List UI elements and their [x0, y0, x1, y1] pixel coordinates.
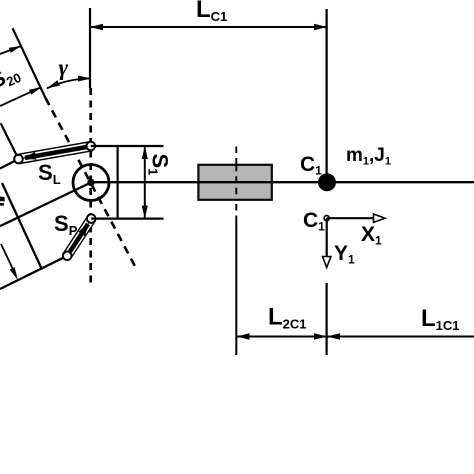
rotated axis line B (crank center to lower left)	[0, 183, 91, 227]
arrowhead gamma arc left	[47, 80, 60, 88]
arrowhead S_20 lower	[29, 87, 41, 95]
arrowhead L_2C1 right	[314, 333, 327, 339]
arrowhead L_C1 right	[314, 24, 327, 30]
bottom node pin	[87, 214, 96, 223]
arrowhead L_1C1 left	[327, 333, 340, 339]
gamma angle arc	[47, 79, 91, 89]
dimension line S_1	[144, 146, 146, 219]
dimension line D lower left	[1, 244, 16, 275]
arrowhead gamma arc right	[78, 76, 91, 82]
arrowhead S_20 upper	[9, 46, 21, 53]
dimension line S_20 lower	[0, 88, 40, 106]
damper block (gray rectangle)	[198, 165, 271, 200]
rotated line A2 (parallel steep line lower left)	[2, 183, 42, 270]
svg-text:L1C1: L1C1	[421, 305, 460, 333]
link rod S_P arrow shaft	[70, 224, 88, 252]
svg-text:SL: SL	[38, 160, 61, 187]
svg-text:Y1: Y1	[334, 242, 355, 267]
left node pin	[14, 155, 23, 164]
arrowhead L_2C1 left	[237, 333, 250, 339]
damper block extension line solid	[235, 220, 237, 355]
axis over block	[198, 181, 272, 183]
dimension line L_2C1 / L_1C1	[237, 336, 474, 338]
link rod S_L outline	[19, 142, 92, 164]
svg-text:L2C1: L2C1	[268, 304, 307, 332]
arrowhead S_1 top	[142, 146, 148, 159]
Y1 axis open arrowhead	[323, 257, 331, 268]
svg-text:C1: C1	[300, 153, 322, 178]
svg-text:C1: C1	[303, 209, 325, 234]
rocker node pin	[63, 252, 72, 261]
svg-text:S1: S1	[146, 154, 173, 176]
vertical line through C1 (x=327)	[325, 9, 327, 180]
main horizontal axis	[91, 181, 474, 183]
arrowhead S_P	[78, 223, 89, 237]
link rod S_P outline	[63, 216, 95, 258]
arrowhead L_C1 left	[90, 24, 103, 30]
Y1 axis line	[326, 218, 328, 257]
svg-text:m1,J1: m1,J1	[346, 145, 391, 168]
damper block center dashed line	[235, 147, 237, 221]
extension line below C1	[326, 283, 328, 355]
svg-text:LC1: LC1	[196, 0, 227, 24]
rocker arm line	[0, 256, 67, 289]
svg-text:SP: SP	[54, 211, 78, 238]
X1 axis line	[327, 217, 374, 219]
X1 axis open arrowhead	[374, 214, 386, 222]
top node pin	[87, 142, 96, 151]
svg-text:X1: X1	[361, 223, 382, 248]
dimension line L_C1	[90, 26, 327, 28]
piston top line	[91, 145, 164, 147]
crank circle	[73, 165, 109, 201]
svg-text:γ: γ	[59, 55, 69, 80]
arrowhead D	[10, 267, 18, 280]
mass point C1 dot	[318, 173, 336, 191]
extension line left (vertical at x=90, top)	[89, 8, 91, 88]
coordinate frame origin	[324, 216, 329, 221]
svg-text:S20: S20	[0, 59, 23, 96]
crank rotated axis solid segment (S_20 extension line)	[13, 28, 46, 98]
cut letter fragment at left edge	[0, 197, 5, 206]
damper center dashes over block	[235, 165, 237, 200]
piston vertical line	[116, 146, 118, 219]
link rod S_L arrow shaft	[25, 147, 89, 158]
crank rotated axis dashed diagonal	[46, 98, 137, 269]
arrowhead S_1 bottom	[142, 206, 148, 219]
node axis dashed vertical line through crank center	[89, 88, 92, 284]
piston bottom line	[91, 218, 163, 220]
arrowhead S_L	[23, 152, 37, 160]
rotated axis stub E (node to left edge)	[0, 159, 19, 169]
crank center dot	[87, 179, 94, 186]
rotated crank arm line A1 (upper left to node)	[1, 123, 19, 159]
dimension line S_20 upper	[0, 46, 20, 54]
